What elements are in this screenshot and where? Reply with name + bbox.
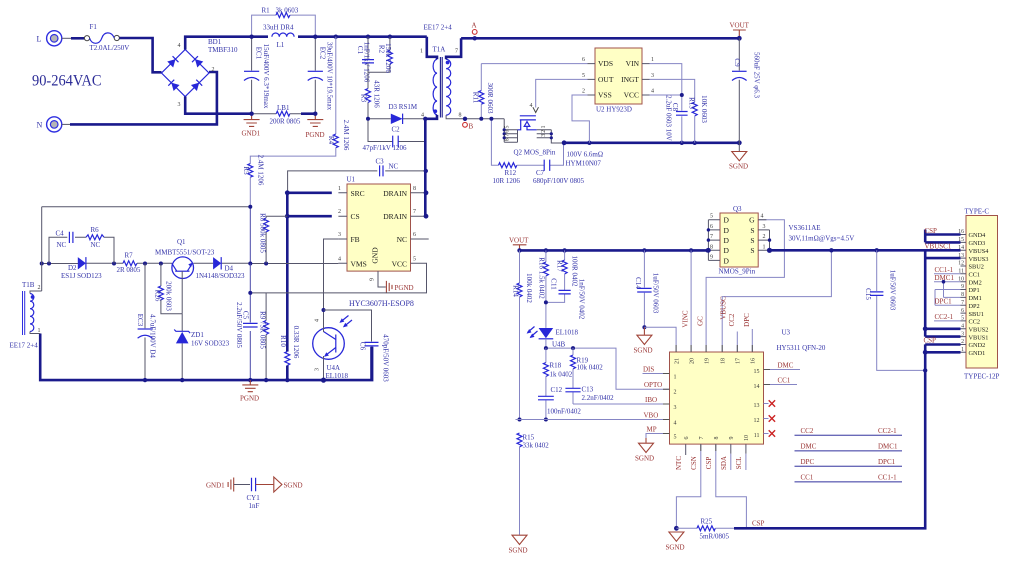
svg-text:F1: F1 — [90, 23, 98, 31]
svg-text:EC3: EC3 — [136, 314, 144, 327]
bridge rectifier BD1 — [162, 38, 239, 108]
svg-text:4: 4 — [338, 256, 341, 262]
svg-text:10R 1206: 10R 1206 — [493, 177, 521, 185]
svg-text:47pF/1kV 1206: 47pF/1kV 1206 — [363, 144, 408, 152]
svg-text:VCC: VCC — [392, 259, 407, 268]
svg-text:12: 12 — [754, 418, 760, 424]
svg-text:VDS: VDS — [598, 59, 613, 68]
svg-text:GND: GND — [371, 247, 380, 264]
svg-text:D2: D2 — [68, 264, 77, 272]
svg-text:S: S — [750, 246, 754, 255]
svg-text:16: 16 — [751, 358, 757, 364]
svg-text:R16 1.5k 0402: R16 1.5k 0402 — [538, 257, 546, 299]
power port VOUT secondary — [509, 237, 529, 253]
svg-text:SCL: SCL — [735, 457, 743, 470]
svg-text:CC1: CC1 — [801, 474, 814, 482]
svg-text:D: D — [724, 256, 730, 265]
svg-text:EL1018: EL1018 — [556, 329, 579, 337]
resistor R5 — [242, 155, 265, 207]
svg-text:DIS: DIS — [643, 366, 654, 374]
svg-text:6: 6 — [684, 437, 690, 440]
resistor R19 capacitor C13 — [565, 348, 614, 404]
svg-text:4: 4 — [178, 43, 181, 49]
wire fuse to bridge — [119, 38, 161, 72]
svg-text:7: 7 — [505, 134, 511, 137]
wire bridge top to bus — [185, 37, 268, 50]
svg-text:1: 1 — [338, 186, 341, 192]
node A — [472, 22, 478, 41]
svg-text:4: 4 — [761, 214, 764, 220]
svg-text:8: 8 — [505, 138, 511, 141]
svg-text:DRAIN: DRAIN — [383, 189, 407, 198]
svg-text:100k 0402: 100k 0402 — [525, 273, 533, 303]
pin 9 PGND — [370, 271, 414, 293]
junction dots top bus — [249, 35, 253, 39]
svg-text:200k 0603: 200k 0603 — [165, 281, 173, 311]
svg-text:2.2uF/50V 0805: 2.2uF/50V 0805 — [235, 302, 243, 348]
wire CSN kelvin — [676, 444, 700, 528]
svg-text:DP2: DP2 — [969, 303, 980, 310]
svg-text:VBUSC1: VBUSC1 — [925, 243, 952, 251]
wire VDS to R11 — [481, 63, 587, 65]
svg-text:SGND: SGND — [666, 544, 685, 552]
thick drain dots — [424, 190, 429, 195]
svg-text:R1: R1 — [262, 7, 271, 15]
svg-text:D: D — [724, 226, 730, 235]
bus secondary top — [461, 37, 739, 40]
svg-text:SBU1: SBU1 — [969, 311, 984, 318]
terminal L — [37, 31, 62, 46]
svg-text:4: 4 — [421, 113, 424, 119]
svg-text:NC: NC — [57, 241, 67, 249]
svg-text:5: 5 — [505, 126, 511, 129]
svg-text:560uF 25V φ6.3: 560uF 25V φ6.3 — [753, 52, 761, 99]
svg-text:U4A: U4A — [327, 364, 341, 372]
svg-text:R14: R14 — [512, 285, 520, 297]
net tie CC1 CC1-1 — [795, 474, 903, 482]
svg-text:PGND: PGND — [306, 131, 325, 139]
ground SGND right — [729, 143, 748, 171]
svg-text:VOUT: VOUT — [730, 22, 750, 30]
wire opto cathode to OPTO pin — [546, 348, 670, 389]
svg-text:11: 11 — [754, 433, 760, 439]
svg-text:NTC: NTC — [675, 456, 683, 470]
svg-text:CC2: CC2 — [801, 427, 814, 435]
svg-text:CC1: CC1 — [969, 272, 981, 279]
resistor R8 — [259, 213, 288, 263]
svg-text:CSP: CSP — [925, 227, 938, 235]
op-amp U2 HY923D — [582, 48, 654, 114]
svg-text:R11: R11 — [472, 92, 480, 104]
svg-text:INGT: INGT — [621, 75, 639, 84]
ground GND1 — [242, 114, 261, 138]
svg-text:SDA: SDA — [720, 456, 728, 470]
svg-text:3: 3 — [541, 134, 547, 137]
svg-text:1: 1 — [763, 244, 766, 250]
svg-text:PGND: PGND — [240, 395, 259, 403]
svg-text:470pF/50V 0603: 470pF/50V 0603 — [382, 334, 390, 382]
svg-text:LB1: LB1 — [277, 104, 290, 112]
svg-text:43R 1206: 43R 1206 — [373, 80, 381, 108]
ground PGND rail — [240, 380, 259, 402]
wire CC2 stub — [736, 332, 738, 353]
svg-text:R17: R17 — [556, 260, 564, 272]
power port VOUT top — [730, 22, 750, 41]
svg-text:14: 14 — [754, 384, 760, 390]
ground PGND — [306, 114, 325, 139]
svg-text:G: G — [749, 216, 755, 225]
net tie DPC DPC1 — [795, 458, 903, 466]
svg-text:CC1-1: CC1-1 — [878, 474, 897, 482]
svg-text:C7: C7 — [536, 169, 545, 177]
svg-text:33k 0402: 33k 0402 — [523, 442, 550, 450]
svg-text:T1B: T1B — [22, 281, 35, 289]
svg-text:R6: R6 — [91, 226, 100, 234]
snubber capacitor C1 — [356, 37, 374, 83]
svg-text:VBUSC: VBUSC — [720, 296, 728, 320]
wire DMC stub — [764, 369, 801, 371]
wire VCC — [650, 94, 682, 96]
svg-text:D: D — [724, 236, 730, 245]
svg-text:21: 21 — [675, 358, 681, 364]
resistor R9 — [259, 293, 269, 380]
svg-text:4: 4 — [315, 319, 321, 322]
svg-text:MMBT5551/SOT-23: MMBT5551/SOT-23 — [155, 249, 215, 257]
capacitor CY1 row — [206, 477, 303, 510]
svg-text:MP: MP — [647, 426, 657, 434]
svg-text:TYPEC-12P: TYPEC-12P — [964, 373, 1000, 381]
net DMC1 — [934, 274, 961, 297]
svg-text:S: S — [750, 236, 754, 245]
wire VBUS thick — [770, 250, 926, 336]
svg-text:3: 3 — [674, 405, 677, 411]
svg-text:ES1J SOD123: ES1J SOD123 — [61, 272, 102, 280]
svg-text:2: 2 — [674, 390, 677, 396]
svg-text:CSP: CSP — [924, 337, 937, 345]
svg-text:100V 6.6mΩ: 100V 6.6mΩ — [567, 151, 604, 159]
svg-text:1nF/50V 0402: 1nF/50V 0402 — [578, 279, 586, 320]
svg-text:SGND: SGND — [729, 163, 748, 171]
svg-text:R5: R5 — [242, 166, 250, 175]
svg-text:VMS: VMS — [351, 259, 367, 268]
svg-text:2.4M 1206: 2.4M 1206 — [342, 120, 350, 151]
capacitor C15 — [864, 250, 927, 372]
svg-text:VBUS2: VBUS2 — [969, 327, 989, 334]
svg-text:4.7uF/100V D4: 4.7uF/100V D4 — [149, 314, 157, 358]
svg-text:C14: C14 — [634, 277, 642, 289]
wire VCC line — [250, 263, 426, 293]
svg-text:8: 8 — [714, 437, 720, 440]
svg-text:2.2nF/0402: 2.2nF/0402 — [582, 394, 615, 402]
optocoupler U4A — [313, 316, 352, 381]
svg-text:C3: C3 — [376, 158, 385, 166]
svg-text:CC2: CC2 — [969, 319, 981, 326]
svg-text:GND3: GND3 — [969, 240, 986, 247]
svg-text:CC2-1: CC2-1 — [935, 313, 954, 321]
wire VBUSC — [722, 250, 831, 352]
capacitor C2 — [363, 119, 426, 152]
svg-text:CSN: CSN — [690, 456, 698, 470]
svg-text:5: 5 — [582, 73, 585, 79]
svg-text:A: A — [472, 22, 477, 30]
svg-text:2: 2 — [212, 67, 215, 73]
resistor R14 — [512, 250, 534, 419]
svg-text:3: 3 — [315, 368, 321, 371]
svg-text:VCC: VCC — [624, 91, 639, 100]
svg-text:2: 2 — [38, 285, 41, 291]
svg-text:GC: GC — [697, 316, 705, 326]
svg-text:NC: NC — [397, 235, 407, 244]
svg-text:7: 7 — [710, 234, 713, 240]
resistor R18 capacitor C12 — [538, 348, 581, 421]
svg-text:CC2: CC2 — [728, 313, 736, 326]
net CC2-1 — [934, 313, 961, 321]
svg-text:17: 17 — [736, 358, 742, 364]
svg-text:VIN: VIN — [626, 59, 640, 68]
svg-text:10: 10 — [744, 435, 750, 441]
wire CSP kelvin — [716, 444, 747, 528]
svg-text:DPC1: DPC1 — [878, 458, 896, 466]
svg-text:2: 2 — [541, 130, 547, 133]
svg-text:DPC1: DPC1 — [935, 298, 953, 306]
wire aux top line — [42, 206, 251, 208]
resistor R4 — [250, 37, 350, 164]
svg-text:8: 8 — [459, 113, 462, 119]
svg-text:1uF/50V 0603: 1uF/50V 0603 — [889, 270, 897, 311]
svg-text:39uF/400V 10*19.5max: 39uF/400V 10*19.5max — [326, 42, 334, 111]
capacitor C14 — [634, 250, 660, 327]
svg-text:NC: NC — [389, 163, 399, 171]
resistor R11 — [472, 64, 495, 121]
zener ZD1 — [174, 314, 229, 380]
svg-text:6: 6 — [710, 224, 713, 230]
svg-text:U4B: U4B — [552, 341, 566, 349]
diode D4 — [196, 257, 246, 280]
wire pin21 to sgnd node — [644, 327, 676, 352]
svg-text:HYM10N07: HYM10N07 — [566, 160, 602, 168]
svg-text:9: 9 — [729, 437, 735, 440]
svg-text:U2 HY923D: U2 HY923D — [596, 106, 632, 114]
svg-text:D: D — [724, 216, 730, 225]
svg-text:U1: U1 — [347, 176, 356, 184]
svg-text:3: 3 — [338, 232, 341, 238]
capacitor C9 — [732, 38, 761, 143]
svg-text:DPC: DPC — [743, 313, 751, 327]
net DPC1 — [935, 290, 961, 306]
wire IBO line — [573, 403, 670, 405]
resistor LB1 — [270, 104, 301, 125]
svg-text:DMC: DMC — [801, 443, 817, 451]
svg-text:OPTO: OPTO — [644, 381, 662, 389]
wire CSP vertical GND2 GND1 — [925, 345, 960, 353]
resistor R7 — [117, 252, 141, 275]
terminal N — [37, 117, 62, 132]
wire GC — [706, 220, 784, 352]
svg-text:Q2 MOS_8Pin: Q2 MOS_8Pin — [514, 149, 556, 157]
svg-text:DM2: DM2 — [969, 279, 982, 286]
wire FB to opto — [324, 239, 339, 328]
capacitor C3 — [288, 158, 428, 193]
capacitor C6 — [324, 310, 390, 382]
wire DPC stub — [751, 329, 753, 352]
wire CSP top stub GND4 GND3 — [925, 227, 961, 242]
capacitor C5 — [235, 264, 258, 381]
svg-text:NMOS_9Pin: NMOS_9Pin — [719, 268, 756, 276]
svg-text:DMC1: DMC1 — [878, 443, 898, 451]
svg-text:4: 4 — [674, 421, 677, 427]
svg-text:R3: R3 — [360, 94, 368, 103]
svg-text:7: 7 — [699, 437, 705, 440]
svg-text:GND4: GND4 — [969, 232, 987, 239]
svg-text:1nF/1kV 1206: 1nF/1kV 1206 — [363, 42, 371, 83]
svg-text:C4: C4 — [56, 230, 65, 238]
resistor R6 — [86, 226, 114, 264]
svg-text:7: 7 — [413, 209, 416, 215]
wire VSS to rail — [572, 95, 589, 143]
svg-text:R8 500k 0805: R8 500k 0805 — [259, 213, 267, 253]
svg-text:OUT: OUT — [598, 75, 614, 84]
svg-text:3: 3 — [178, 102, 181, 108]
net CC1-1 — [934, 266, 961, 274]
svg-text:GND2: GND2 — [969, 342, 986, 349]
svg-text:DM1: DM1 — [969, 295, 982, 302]
capacitor EC2 — [308, 37, 334, 114]
svg-text:CS: CS — [351, 212, 360, 221]
svg-text:15uF/400V 6.3*19max: 15uF/400V 6.3*19max — [262, 44, 270, 109]
IC U1 HYC3607H — [338, 176, 429, 308]
transformer T1B — [10, 207, 42, 350]
resistor R16 — [538, 250, 549, 328]
svg-text:100R 0402: 100R 0402 — [571, 256, 579, 287]
svg-text:R15: R15 — [523, 434, 535, 442]
wire DIS stub — [643, 373, 670, 375]
svg-text:3: 3 — [763, 224, 766, 230]
wire N to bridge — [62, 123, 70, 125]
svg-text:VBO: VBO — [644, 412, 659, 420]
svg-text:U3: U3 — [782, 329, 791, 337]
svg-text:150k 1206: 150k 1206 — [384, 43, 392, 73]
svg-text:1: 1 — [674, 375, 677, 381]
svg-text:300R 0603: 300R 0603 — [486, 83, 494, 114]
svg-text:C2: C2 — [392, 126, 401, 134]
svg-text:T1A: T1A — [433, 46, 446, 54]
svg-text:1: 1 — [420, 49, 423, 55]
wire VBO line — [516, 419, 670, 421]
diode D2 — [61, 257, 102, 280]
svg-text:VBUS3: VBUS3 — [969, 256, 989, 263]
resistor R25 shunt — [674, 518, 734, 541]
svg-text:19: 19 — [705, 358, 711, 364]
svg-text:VSS: VSS — [598, 91, 612, 100]
svg-text:100nF/0402: 100nF/0402 — [547, 408, 581, 416]
svg-text:4: 4 — [530, 103, 533, 109]
wire MP SGND — [635, 426, 670, 463]
svg-text:R26: R26 — [154, 290, 162, 302]
svg-text:1nF: 1nF — [249, 502, 260, 510]
node B — [463, 117, 474, 131]
svg-text:DP1: DP1 — [969, 287, 980, 294]
diode D3 — [368, 103, 425, 124]
svg-text:SGND: SGND — [509, 547, 528, 555]
svg-text:2: 2 — [582, 89, 585, 95]
svg-text:HYC3607H-ESOP8: HYC3607H-ESOP8 — [349, 299, 414, 308]
svg-text:1N4148/SOD323: 1N4148/SOD323 — [196, 272, 246, 280]
svg-text:BD1: BD1 — [208, 38, 222, 46]
svg-text:L1: L1 — [277, 41, 285, 49]
svg-text:S: S — [750, 226, 754, 235]
svg-text:SGND: SGND — [634, 347, 653, 355]
no-connect X pins 13 12 11 — [764, 400, 776, 436]
wire CC1 stub — [764, 384, 798, 386]
svg-text:VBUS1: VBUS1 — [969, 334, 989, 341]
wire VBUS4 VBUS3 — [925, 250, 960, 258]
svg-text:7: 7 — [455, 49, 458, 55]
svg-text:90-264VAC: 90-264VAC — [32, 73, 102, 90]
svg-text:1: 1 — [651, 57, 654, 63]
svg-text:EC2: EC2 — [318, 47, 326, 60]
svg-text:5: 5 — [674, 435, 677, 441]
svg-text:6: 6 — [413, 232, 416, 238]
svg-text:Q1: Q1 — [177, 238, 186, 246]
wire VMS line — [42, 262, 339, 264]
wire CSP bottom rail — [734, 344, 925, 528]
svg-text:GND1: GND1 — [969, 350, 986, 357]
svg-text:DPC: DPC — [801, 458, 815, 466]
svg-text:R12: R12 — [505, 169, 517, 177]
svg-text:18: 18 — [721, 358, 727, 364]
svg-text:R18: R18 — [550, 362, 562, 370]
svg-text:VS3611AE: VS3611AE — [789, 224, 821, 232]
snubber resistor R2 — [368, 37, 392, 74]
svg-text:20: 20 — [690, 358, 696, 364]
svg-text:R7: R7 — [125, 252, 134, 260]
rail secondary ground — [564, 142, 739, 145]
wire VBUS2 VBUS1 — [925, 329, 960, 337]
svg-text:T2.0AL/250V: T2.0AL/250V — [90, 44, 130, 52]
net tie CC2 CC2-1 — [795, 427, 903, 435]
svg-text:5mR/0805: 5mR/0805 — [700, 533, 730, 541]
svg-text:1: 1 — [541, 126, 547, 129]
svg-text:ZD1: ZD1 — [191, 331, 204, 339]
svg-text:5: 5 — [710, 214, 713, 220]
svg-text:PGND: PGND — [395, 284, 414, 292]
svg-text:9: 9 — [370, 278, 376, 281]
svg-text:EL1018: EL1018 — [326, 372, 349, 380]
svg-text:2.2uF 0603 10V: 2.2uF 0603 10V — [665, 95, 673, 141]
svg-text:SGND: SGND — [635, 455, 654, 463]
svg-text:VINC: VINC — [682, 310, 690, 327]
svg-text:30V,11mΩ@Vgs=4.5V: 30V,11mΩ@Vgs=4.5V — [789, 235, 855, 243]
resistor R17 capacitor C11 — [544, 250, 586, 319]
svg-text:10K 0603: 10K 0603 — [700, 95, 708, 123]
svg-text:SGND: SGND — [284, 482, 303, 490]
svg-text:8: 8 — [413, 186, 416, 192]
svg-text:GND1: GND1 — [206, 482, 225, 490]
svg-text:1uF/50V 0603: 1uF/50V 0603 — [652, 273, 660, 314]
svg-text:1k 0402: 1k 0402 — [550, 371, 573, 379]
svg-text:33uH DR4: 33uH DR4 — [263, 24, 294, 32]
svg-text:EE17 2+4: EE17 2+4 — [424, 24, 453, 32]
svg-text:C15: C15 — [864, 288, 872, 300]
fuse F1 — [84, 23, 129, 52]
inductor L1 — [263, 24, 294, 49]
svg-text:5: 5 — [413, 256, 416, 262]
rail primary ground — [40, 334, 372, 381]
svg-text:8: 8 — [710, 244, 713, 250]
wire L to fuse — [62, 37, 71, 39]
capacitor EC1 — [244, 37, 270, 114]
snubber resistor R3 — [360, 72, 381, 119]
